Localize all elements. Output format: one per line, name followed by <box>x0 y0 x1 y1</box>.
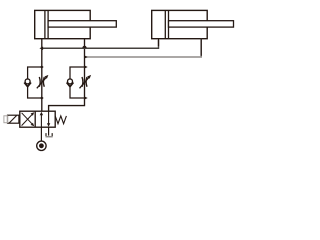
cylinder 2A body <box>152 10 208 38</box>
flow control valve 2: bypass loop <box>70 67 85 79</box>
cylinder 1A rod <box>48 21 116 27</box>
junction marker: wire A tee at left branch <box>39 47 43 50</box>
cylinder 1A body <box>35 10 90 38</box>
check valve 2: seat <box>67 83 74 87</box>
flow control valve 1: bypass loop <box>28 67 42 79</box>
wire B: rod-end manifold <box>85 39 202 57</box>
wire: flow valve 2 to valve port B <box>49 98 85 111</box>
wire: cyl1 rod port down to flow valve 2 <box>84 39 86 98</box>
cylinder 2A piston <box>164 10 166 38</box>
cylinder 1A piston <box>44 10 46 38</box>
directional valve divider <box>34 111 36 127</box>
wire: valve port R to exhaust <box>48 127 50 135</box>
check valve 1: seat <box>24 83 31 87</box>
wire: valve port P to source <box>40 127 42 141</box>
check valve 2: circle <box>68 79 73 84</box>
cyl2 cap stub <box>158 39 160 46</box>
check valve 1: circle <box>25 79 30 84</box>
throttle 2: arcs <box>81 77 84 87</box>
wire A: cap-end manifold <box>42 40 159 48</box>
line hop: wire A crosses rod branch <box>82 46 86 48</box>
directional valve body <box>20 111 55 127</box>
junction diamonds on flow valve 1 <box>40 65 44 68</box>
cylinder 2A rod <box>169 21 234 27</box>
right position: straight arrows <box>40 113 42 127</box>
return spring <box>55 116 66 124</box>
pressure source <box>37 141 46 150</box>
wire: cyl1 cap port down to valve port A (left branch) <box>41 39 43 112</box>
throttle 1: arrow <box>37 77 47 89</box>
left position: crossed arrows <box>22 113 34 126</box>
throttle 2: arrow <box>80 77 90 89</box>
junction marker: wire B tee at rod branch <box>84 55 87 58</box>
junction triangles on flow valve 2 <box>84 65 87 68</box>
cyl2 rod stub <box>200 39 202 56</box>
solenoid actuator <box>8 115 19 123</box>
throttle 1: arcs <box>38 77 41 87</box>
exhaust cup <box>45 133 47 136</box>
